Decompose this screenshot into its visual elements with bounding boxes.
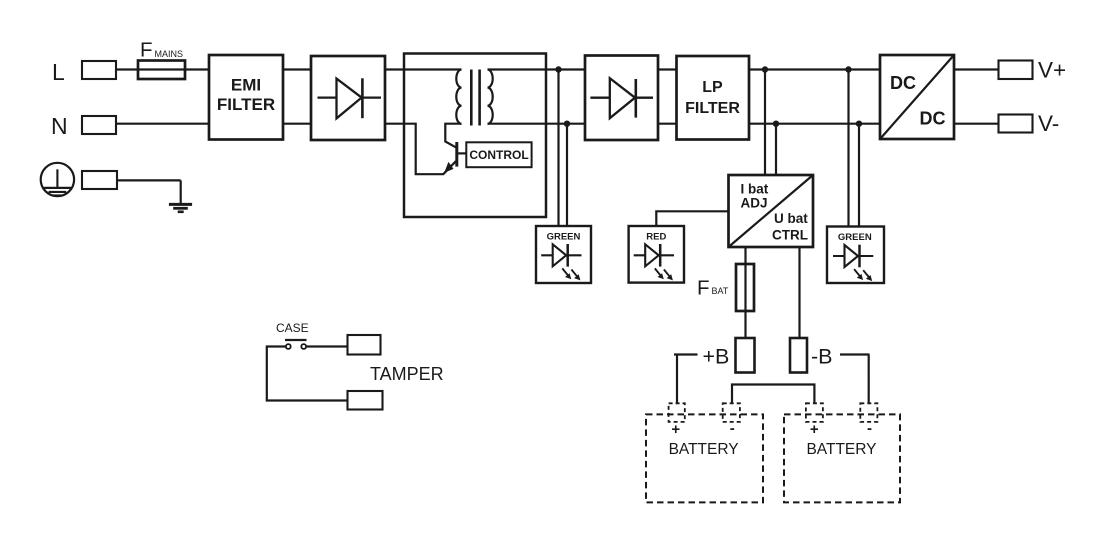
svg-text:+B: +B bbox=[703, 345, 730, 369]
svg-text:-: - bbox=[730, 420, 735, 437]
svg-text:GREEN: GREEN bbox=[547, 232, 581, 243]
svg-text:F: F bbox=[697, 277, 710, 300]
svg-text:MAINS: MAINS bbox=[155, 49, 184, 59]
svg-text:ADJ: ADJ bbox=[741, 196, 768, 211]
svg-text:F: F bbox=[140, 39, 153, 62]
svg-text:-B: -B bbox=[811, 345, 833, 369]
svg-text:TAMPER: TAMPER bbox=[370, 364, 444, 384]
svg-text:DC: DC bbox=[890, 73, 916, 93]
svg-text:U bat: U bat bbox=[774, 211, 808, 226]
svg-text:LP: LP bbox=[702, 79, 723, 96]
svg-text:CONTROL: CONTROL bbox=[469, 148, 528, 162]
svg-text:BATTERY: BATTERY bbox=[669, 441, 739, 458]
svg-text:EMI: EMI bbox=[231, 76, 261, 95]
svg-text:V-: V- bbox=[1038, 111, 1059, 136]
svg-text:+: + bbox=[810, 421, 819, 438]
svg-text:FILTER: FILTER bbox=[685, 100, 740, 117]
svg-text:CTRL: CTRL bbox=[772, 228, 808, 243]
svg-text:N: N bbox=[51, 113, 68, 139]
svg-text:BAT: BAT bbox=[712, 286, 729, 296]
svg-text:CASE: CASE bbox=[276, 321, 309, 335]
svg-text:-: - bbox=[867, 420, 872, 437]
svg-text:DC: DC bbox=[920, 109, 946, 129]
svg-text:BATTERY: BATTERY bbox=[806, 441, 876, 458]
svg-text:+: + bbox=[671, 421, 680, 438]
svg-text:V+: V+ bbox=[1038, 58, 1066, 83]
svg-text:I bat: I bat bbox=[741, 182, 769, 197]
svg-text:L: L bbox=[52, 59, 65, 85]
svg-text:FILTER: FILTER bbox=[217, 95, 275, 114]
svg-text:GREEN: GREEN bbox=[838, 232, 872, 243]
svg-text:RED: RED bbox=[646, 232, 666, 243]
